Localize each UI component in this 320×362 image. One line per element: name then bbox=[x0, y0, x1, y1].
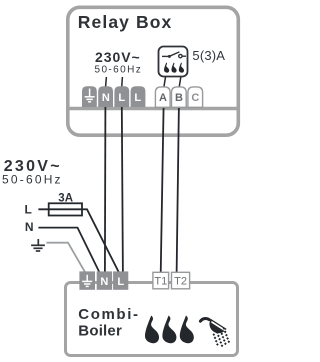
terminal: relay L (2) bbox=[131, 86, 146, 107]
svg-text:L: L bbox=[118, 92, 125, 104]
svg-text:C: C bbox=[191, 92, 199, 104]
terminal: relay B bbox=[172, 87, 187, 107]
earth glyph (boiler terminal) bbox=[82, 275, 92, 287]
svg-text:L: L bbox=[134, 92, 141, 104]
svg-text:Boiler: Boiler bbox=[78, 323, 122, 340]
flame icons (relay switch box) bbox=[164, 62, 184, 72]
svg-text:5(3)A: 5(3)A bbox=[192, 48, 225, 63]
combi-boiler enclosure bbox=[66, 283, 238, 356]
wire: relay A to boiler T1 bbox=[161, 106, 164, 274]
svg-text:T2: T2 bbox=[174, 276, 187, 288]
svg-text:50-60Hz: 50-60Hz bbox=[95, 65, 143, 76]
wire stub: relay L up bbox=[121, 77, 124, 88]
svg-text:A: A bbox=[159, 92, 167, 104]
terminal: relay L (1) bbox=[114, 86, 129, 107]
relay switch symbol box bbox=[159, 47, 188, 77]
terminal: boiler N bbox=[97, 271, 112, 289]
shower icon bbox=[200, 318, 230, 347]
shower head bbox=[209, 319, 226, 333]
wire: relay L to boiler L bbox=[122, 106, 123, 274]
svg-text:N: N bbox=[25, 220, 34, 234]
svg-text:T1: T1 bbox=[154, 276, 167, 288]
terminal: boiler earth bbox=[79, 271, 95, 289]
terminal: boiler L bbox=[113, 271, 128, 289]
svg-text:N: N bbox=[102, 92, 110, 104]
svg-text:Combi-: Combi- bbox=[78, 306, 139, 323]
wire stub: relay N up bbox=[105, 77, 108, 88]
wire: relay N to boiler N bbox=[104, 106, 107, 274]
wire: relay B to boiler T2 bbox=[177, 106, 179, 274]
shower arm bbox=[200, 318, 209, 321]
wire stub: relay switch to B bbox=[179, 77, 181, 89]
earth wire: mains earth to boiler earth bbox=[46, 243, 85, 274]
terminal: relay earth bbox=[82, 86, 97, 107]
spray droplets bbox=[212, 327, 230, 347]
fuse F1 3A bbox=[49, 203, 82, 215]
svg-text:50-60Hz: 50-60Hz bbox=[2, 172, 63, 186]
earth glyph (relay terminal) bbox=[85, 89, 95, 102]
svg-text:B: B bbox=[175, 92, 183, 104]
svg-text:L: L bbox=[25, 202, 32, 216]
wire: mains L through fuse to boiler L bbox=[38, 209, 118, 274]
terminal: relay A bbox=[155, 87, 170, 107]
terminal: boiler T2 bbox=[172, 272, 190, 289]
terminal: relay N bbox=[98, 86, 113, 107]
terminal: relay C bbox=[188, 87, 203, 107]
wire stub: relay switch to A bbox=[164, 77, 166, 89]
relay box enclosure bbox=[68, 7, 239, 135]
svg-text:230V~: 230V~ bbox=[95, 49, 141, 65]
terminal: boiler T1 bbox=[153, 272, 169, 289]
wire inside fuse bbox=[49, 208, 82, 210]
switch contact symbol bbox=[162, 52, 186, 58]
ground symbol (mains earth) bbox=[31, 239, 45, 251]
wire: mains N to boiler N bbox=[38, 228, 99, 274]
flame icons (boiler) bbox=[145, 316, 194, 344]
svg-text:L: L bbox=[117, 276, 124, 288]
svg-text:Relay Box: Relay Box bbox=[78, 12, 173, 32]
relay box terminal shelf line bbox=[67, 107, 239, 111]
svg-text:N: N bbox=[100, 276, 108, 288]
